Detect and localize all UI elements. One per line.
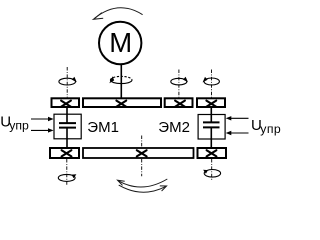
bottom bar segment 1 xyxy=(50,148,79,158)
axis above top bar (third segment) xyxy=(178,70,180,98)
axis above bottom bar center xyxy=(141,136,143,148)
right clutch shaft upper xyxy=(210,108,212,122)
top bar segment 3 xyxy=(165,98,193,107)
control arrow right upper xyxy=(230,117,249,119)
axis (dash-dot) above top bar left xyxy=(66,67,68,97)
left clutch shaft upper xyxy=(66,108,68,123)
rotation symbol below bottom bar right (arrow left) xyxy=(204,170,220,178)
rotation symbol below bottom bar left xyxy=(58,174,75,181)
clutch EM1 box xyxy=(54,114,81,139)
rotation symbol above top bar third segment xyxy=(171,78,187,85)
axis below bottom bar left xyxy=(66,159,68,186)
control arrow left lower xyxy=(31,129,50,131)
bottom bar segment 3 xyxy=(198,148,227,158)
svg-text:упр: упр xyxy=(9,118,29,132)
bearing cross T4 xyxy=(206,101,216,107)
axis below bottom bar right xyxy=(211,159,213,180)
bearing cross B3 xyxy=(207,150,217,156)
svg-text:ЭМ2: ЭМ2 xyxy=(158,119,190,136)
clutch EM2 box xyxy=(198,115,225,140)
right clutch shaft lower xyxy=(210,127,212,147)
bearing cross T1 xyxy=(61,101,71,107)
clutch EM2 plates (capacitor symbol) xyxy=(203,122,220,127)
top bar segment 2 (long, under motor) xyxy=(83,98,161,107)
rotation arrow above motor xyxy=(93,8,142,20)
control arrow right lower xyxy=(230,132,249,134)
axis below bottom bar center xyxy=(141,159,143,176)
oscillation double arrow lower arc (arrowhead right) xyxy=(119,185,167,192)
top bar segment 1 xyxy=(52,98,80,107)
rotation symbol on motor shaft (ellipse, dashed back, arrow left) xyxy=(110,76,132,83)
axis above top bar (fourth segment) xyxy=(211,70,213,98)
motor shaft (vertical) xyxy=(120,64,122,98)
svg-text:ЭМ1: ЭМ1 xyxy=(87,119,119,136)
bottom bar segment 2 (long) xyxy=(83,148,194,158)
oscillation double arrow below bottom bar, upper arc (arrowhead left) xyxy=(118,179,168,187)
svg-text:упр: упр xyxy=(260,122,281,136)
control arrow left upper xyxy=(31,118,50,120)
svg-text:M: M xyxy=(109,27,132,58)
rotation symbol left above top bar xyxy=(59,78,76,85)
rotation symbol above top bar fourth segment (arrow left) xyxy=(204,78,219,85)
bearing cross T3 xyxy=(175,101,185,107)
bearing cross B1 xyxy=(62,150,72,156)
clutch EM1 plates (capacitor symbol) xyxy=(59,123,76,128)
left clutch shaft lower xyxy=(66,128,68,148)
bearing cross B2 xyxy=(137,150,147,156)
motor M (circle) xyxy=(99,22,141,64)
top bar segment 4 xyxy=(197,98,225,107)
bearing cross T2 xyxy=(116,101,126,107)
